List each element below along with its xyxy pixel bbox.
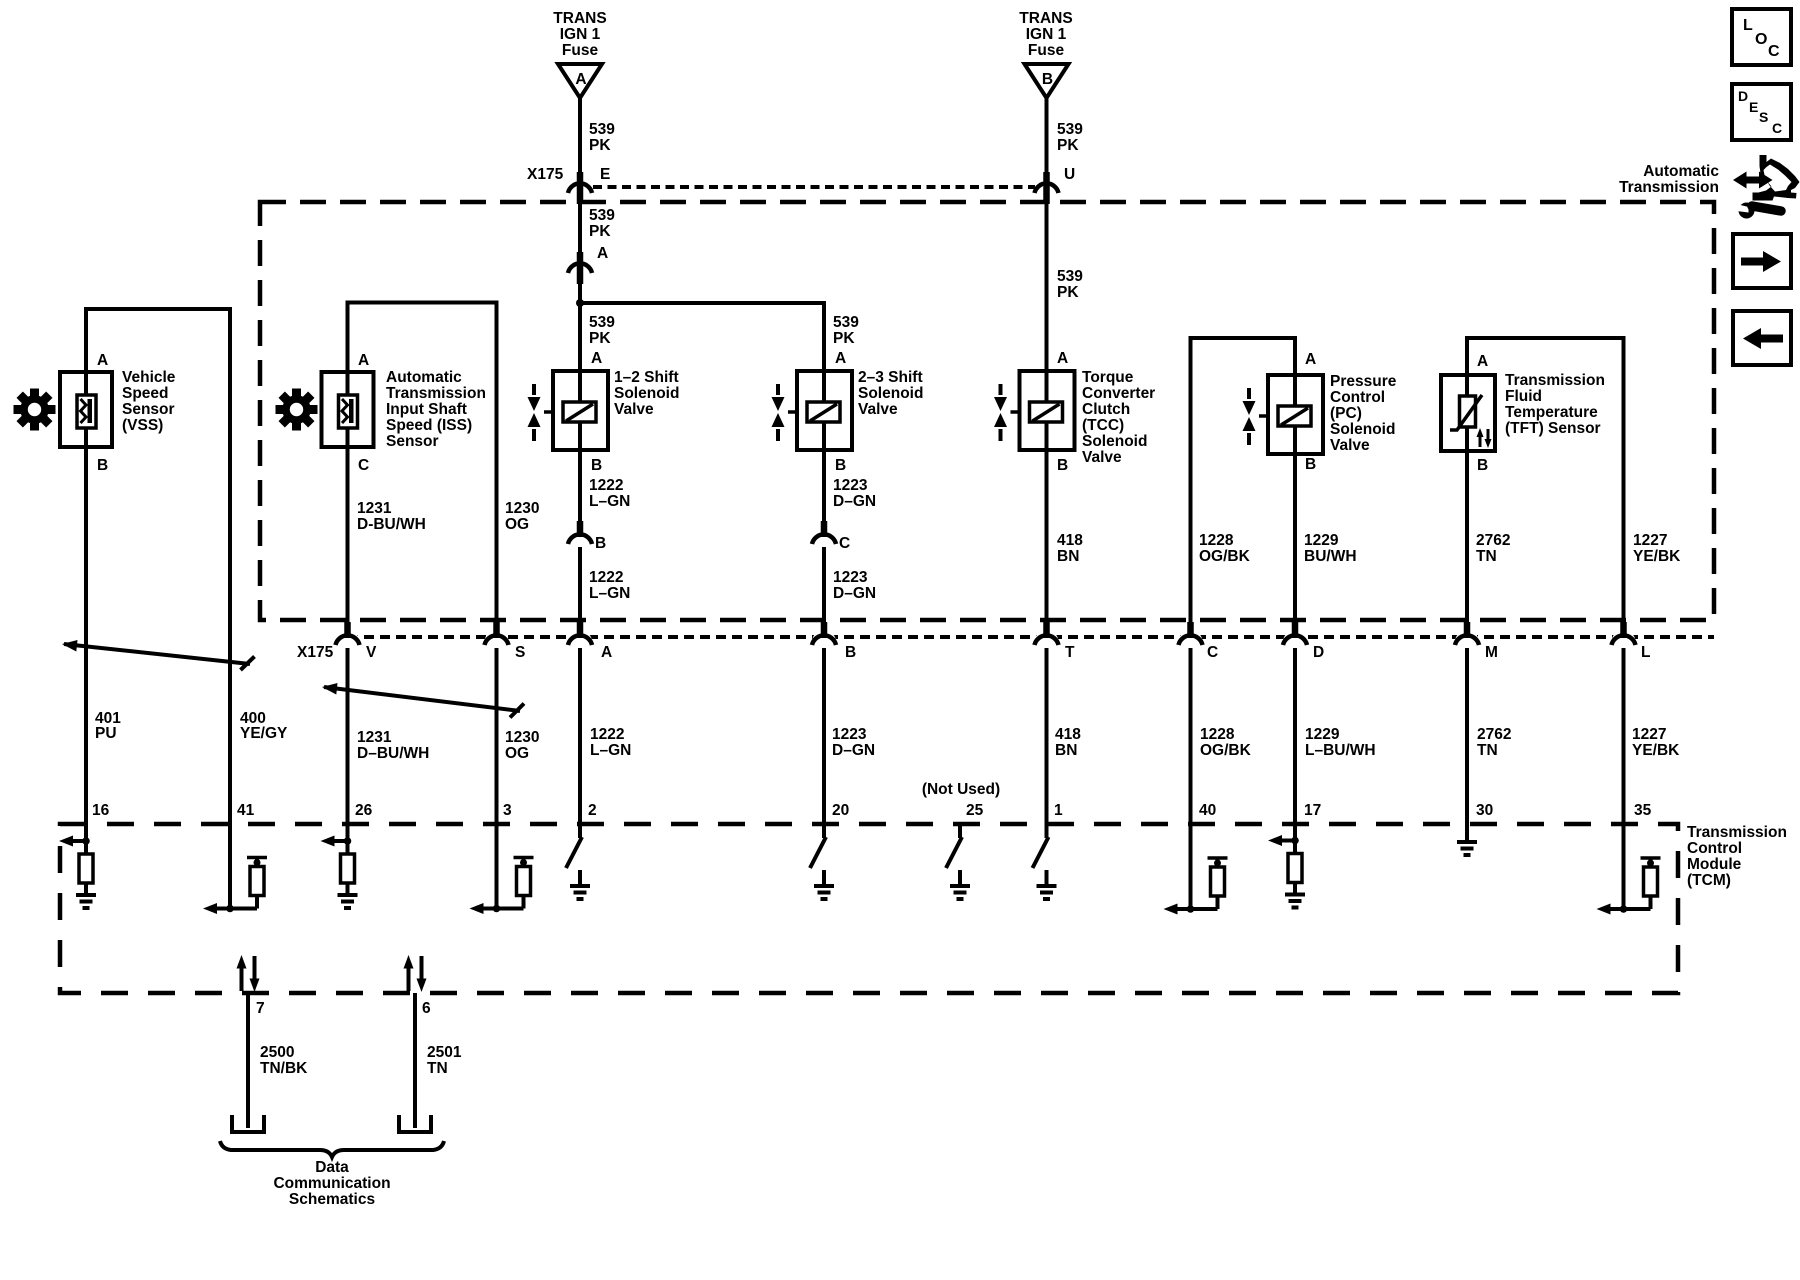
svg-text:2–3 Shift: 2–3 Shift [858,369,923,386]
svg-text:X175: X175 [527,166,564,183]
svg-text:D–BU/WH: D–BU/WH [357,745,429,762]
svg-text:Schematics: Schematics [289,1191,375,1208]
connector A (row) [568,622,612,661]
svg-text:Solenoid: Solenoid [614,385,679,402]
svg-text:IGN 1: IGN 1 [1026,26,1067,43]
svg-text:C: C [1768,43,1780,60]
svg-text:A: A [575,71,586,88]
TCM pin 1 internal: driver switch to ground [1033,824,1057,899]
svg-text:Control: Control [1330,389,1385,406]
svg-text:Valve: Valve [858,401,898,418]
transmission control module TCM dashed box [60,824,1678,993]
svg-text:B: B [595,535,606,552]
svg-text:17: 17 [1304,802,1321,819]
svg-text:1230: 1230 [505,500,539,517]
wire: TCM pin 6 to data link, circuit 2501 TN [415,993,462,1128]
svg-text:Vehicle: Vehicle [122,369,176,386]
svg-text:TRANS: TRANS [553,10,606,27]
svg-text:A: A [597,245,608,262]
svg-text:Input Shaft: Input Shaft [386,401,467,418]
svg-text:B: B [1042,71,1053,88]
svg-text:1223: 1223 [832,726,867,743]
svg-text:B: B [1057,457,1068,474]
svg-text:Speed: Speed [122,385,169,402]
connector socket on 2501 TN [399,1115,431,1132]
svg-text:A: A [591,350,602,367]
torque converter clutch TCC solenoid valve [994,350,1155,474]
svg-text:539: 539 [1057,268,1083,285]
svg-text:539: 539 [833,314,859,331]
svg-text:L–BU/WH: L–BU/WH [1305,742,1376,759]
svg-text:Speed (ISS): Speed (ISS) [386,417,472,434]
svg-text:PK: PK [589,137,611,154]
svg-text:(TFT) Sensor: (TFT) Sensor [1505,420,1601,437]
wire: PC solenoid loop top [1191,338,1296,637]
svg-text:A: A [97,352,108,369]
svg-text:B: B [1305,456,1316,473]
wire: connector C to X175 connector B, circuit 1223 D-GN [824,547,876,637]
svg-text:1222: 1222 [590,726,624,743]
icon: automatic transmission symbol with double arrow and wrench [1733,155,1800,219]
svg-text:Temperature: Temperature [1505,404,1598,421]
svg-text:Solenoid: Solenoid [858,385,923,402]
svg-text:Fuse: Fuse [562,42,599,59]
svg-text:35: 35 [1634,802,1652,819]
svg-text:539: 539 [589,207,615,224]
automatic transmission input shaft speed ISS sensor [322,352,486,474]
label: circuit 1230 OG [505,500,539,533]
wire: ISS pin C to connector V, circuit 1231 D-BU/WH [348,447,426,637]
svg-text:C: C [839,535,850,552]
TCM pin 26 internal: arrow, resistor, ground [321,836,358,909]
svg-text:L–GN: L–GN [590,742,631,759]
TCM pin 41 internal: arrow and pull-up resistor [203,858,267,915]
wire: connector C to TCM pin 40, circuit 1228 OG/BK [1191,648,1252,909]
svg-text:Data: Data [315,1159,349,1176]
svg-text:Fuse: Fuse [1028,42,1065,59]
TCM pin 16 internal: arrow, resistor, ground [59,836,96,909]
svg-text:26: 26 [355,802,373,819]
svg-text:BU/WH: BU/WH [1304,548,1357,565]
wire: TCC solenoid pin B to connector T, circuit 418 BN [1047,450,1084,637]
svg-text:1231: 1231 [357,729,392,746]
svg-text:TN: TN [1476,548,1497,565]
TCM pin 2 internal: driver switch to ground [566,824,590,899]
svg-text:(TCC): (TCC) [1082,417,1124,434]
svg-text:Automatic: Automatic [1643,163,1719,180]
svg-text:TRANS: TRANS [1019,10,1072,27]
svg-text:U: U [1064,166,1075,183]
svg-text:1223: 1223 [833,569,868,586]
svg-text:30: 30 [1476,802,1493,819]
svg-text:Communication: Communication [273,1175,390,1192]
svg-text:2762: 2762 [1476,532,1510,549]
svg-text:PU: PU [95,725,117,742]
wire: 1-2 solenoid pin B to connector B, circuit 1222 L-GN [580,450,630,536]
TCM pin 20 internal: driver switch to ground [810,824,834,899]
TCM pin 40 internal: arrow and pull-up resistor [1164,858,1228,915]
svg-text:1223: 1223 [833,477,868,494]
connector V [336,622,378,661]
svg-text:L–GN: L–GN [589,493,630,510]
svg-text:OG: OG [505,516,529,533]
svg-text:1227: 1227 [1633,532,1667,549]
connector socket on 2500 TN/BK [232,1115,264,1132]
wire: connector L to TCM pin 35, circuit 1227 YE/BK [1624,648,1681,909]
TCM pin 30 internal: ground [1457,824,1477,855]
label: circuit 1228 OG/BK [1199,532,1251,565]
connector C on 1223 D-GN [812,521,850,553]
wire: connector B to TCM pin 20, circuit 1223 D-GN [824,648,875,824]
svg-text:Valve: Valve [614,401,654,418]
wire: TFT pin B to connector M, circuit 2762 TN [1467,451,1510,637]
svg-text:1–2 Shift: 1–2 Shift [614,369,679,386]
svg-text:1229: 1229 [1304,532,1339,549]
wire: branch to 2-3 shift solenoid, circuit 539 PK [580,303,859,371]
svg-text:(Not Used): (Not Used) [922,781,1000,798]
svg-text:Transmission: Transmission [386,385,486,402]
wire: dotted X175 inline connector row [348,635,1714,639]
svg-text:C: C [358,457,369,474]
svg-text:Fluid: Fluid [1505,388,1542,405]
svg-text:1231: 1231 [357,500,392,517]
1-2 shift solenoid valve [528,350,680,474]
wire: connector S to TCM pin 3, circuit 1230 OG [497,648,540,909]
connector B (row) [812,622,856,661]
vehicle speed sensor VSS [60,352,176,474]
svg-text:OG: OG [505,745,529,762]
svg-text:20: 20 [832,802,849,819]
twisted pair arrow across VSS wires [62,640,255,670]
gear icon for VSS [14,389,56,431]
svg-text:539: 539 [589,314,615,331]
wire: connector A to TCM pin 2, circuit 1222 L-GN [580,648,631,824]
svg-text:1222: 1222 [589,569,623,586]
svg-text:B: B [845,644,856,661]
svg-text:Torque: Torque [1082,369,1134,386]
wire: dotted connector line E to U [593,185,1035,189]
TCM pin 3 internal: arrow and pull-up resistor [470,858,534,915]
svg-text:7: 7 [256,1000,265,1017]
bidirectional data arrows above TCM pin 6 [404,955,427,992]
svg-text:M: M [1485,644,1498,661]
wire: connector B to X175 connector A, circuit 1222 L-GN [580,547,630,637]
svg-text:PK: PK [589,223,611,240]
svg-text:T: T [1065,644,1075,661]
svg-text:YE/BK: YE/BK [1632,742,1680,759]
svg-text:Control: Control [1687,840,1742,857]
svg-text:E: E [600,166,610,183]
TCM pin 35 internal: arrow and pull-up resistor [1597,858,1661,915]
svg-text:2501: 2501 [427,1044,462,1061]
icon: left arrow box [1733,311,1791,365]
svg-text:D–GN: D–GN [833,585,876,602]
svg-text:B: B [835,457,846,474]
svg-text:L–GN: L–GN [589,585,630,602]
svg-text:A: A [835,350,846,367]
svg-text:S: S [1759,109,1768,125]
svg-text:OG/BK: OG/BK [1200,742,1252,759]
connector X175 pin U [1035,166,1076,204]
svg-text:A: A [1057,350,1068,367]
svg-text:25: 25 [966,802,984,819]
svg-text:L: L [1743,17,1753,34]
node: 539 PK branch junction [576,299,584,307]
bidirectional data arrows above TCM pin 7 [237,955,260,992]
wire: connector A to branch node, then to 1-2 solenoid, circuit 539 PK [580,276,615,371]
connector L [1612,622,1651,661]
svg-text:Transmission: Transmission [1619,179,1719,196]
svg-text:(TCM): (TCM) [1687,872,1731,889]
label: Automatic Transmission [1619,163,1719,196]
svg-text:Module: Module [1687,856,1742,873]
svg-text:1228: 1228 [1200,726,1235,743]
connector D (row) [1283,622,1324,661]
svg-text:6: 6 [422,1000,431,1017]
2-3 shift solenoid valve [772,350,924,474]
TCM pin 25 internal: driver switch to ground [946,824,970,899]
svg-text:(VSS): (VSS) [122,417,163,434]
svg-text:Converter: Converter [1082,385,1155,402]
svg-text:418: 418 [1057,532,1083,549]
svg-text:418: 418 [1055,726,1081,743]
svg-text:D–GN: D–GN [833,493,876,510]
svg-text:539: 539 [1057,121,1083,138]
svg-text:3: 3 [503,802,512,819]
svg-text:PK: PK [833,330,855,347]
svg-text:YE/BK: YE/BK [1633,548,1681,565]
svg-text:Clutch: Clutch [1082,401,1130,418]
svg-text:1: 1 [1054,802,1063,819]
connector S [485,622,526,661]
connector X175 pin E [527,166,610,204]
svg-text:2762: 2762 [1477,726,1511,743]
svg-text:40: 40 [1199,802,1216,819]
svg-text:539: 539 [589,121,615,138]
label: Transmission Control Module (TCM) [1687,824,1787,889]
svg-text:TN: TN [1477,742,1498,759]
svg-text:PK: PK [1057,284,1079,301]
svg-text:BN: BN [1055,742,1077,759]
svg-text:D–GN: D–GN [832,742,875,759]
svg-text:41: 41 [237,802,255,819]
svg-text:Transmission: Transmission [1505,372,1605,389]
svg-text:1222: 1222 [589,477,623,494]
connector M [1455,622,1498,661]
svg-text:16: 16 [92,802,110,819]
svg-text:A: A [1305,351,1316,368]
TCM pin 17 internal: arrow, resistor, ground [1268,835,1305,908]
svg-text:PK: PK [589,330,611,347]
svg-text:V: V [366,644,377,661]
icon: right arrow box [1733,234,1791,288]
svg-text:BN: BN [1057,548,1079,565]
gear icon for ISS [276,389,318,431]
twisted pair arrow across ISS wires [322,683,524,718]
wire: connector M to TCM pin 30, circuit 2762 TN [1467,648,1511,824]
wire: fuse B to connector U, circuit 539 PK [1047,98,1084,188]
svg-text:S: S [515,644,525,661]
svg-text:1230: 1230 [505,729,539,746]
svg-text:1227: 1227 [1632,726,1666,743]
svg-text:TN/BK: TN/BK [260,1060,308,1077]
svg-text:Valve: Valve [1330,437,1370,454]
svg-text:PK: PK [1057,137,1079,154]
wire: connector V to TCM pin 26, circuit 1231 D-BU/WH [348,648,430,841]
svg-text:A: A [601,644,612,661]
icon: DESC box [1732,84,1791,140]
svg-text:Transmission: Transmission [1687,824,1787,841]
svg-text:X175: X175 [297,644,334,661]
connector T [1035,622,1076,661]
svg-text:Solenoid: Solenoid [1330,421,1395,438]
wire: PC solenoid pin B to connector D, circuit 1229 BU/WH [1295,454,1357,637]
wire: VSS loop top [86,309,230,909]
connector C (row) [1179,622,1219,661]
svg-text:Sensor: Sensor [122,401,175,418]
wire: ISS loop top [348,303,497,638]
svg-text:B: B [1477,457,1488,474]
pin 25 label (Not Used) [922,781,1000,819]
wire: fuse A to connector E, circuit 539 PK [580,98,615,188]
connector A on 539 PK feed [568,245,608,284]
svg-text:D: D [1313,644,1324,661]
svg-text:2: 2 [588,802,597,819]
connector B on 1222 L-GN [568,521,606,553]
brace for data communication schematics [220,1141,444,1157]
label: circuit 1227 YE/BK [1633,532,1681,565]
wire: TFT sensor loop top [1467,338,1624,637]
svg-text:YE/GY: YE/GY [240,725,288,742]
svg-text:OG/BK: OG/BK [1199,548,1251,565]
icon: LOC box [1732,9,1791,65]
wire: connector T to TCM pin 1, circuit 418 BN [1047,648,1082,824]
svg-text:A: A [358,352,369,369]
label: Data Communication Schematics [273,1159,390,1208]
svg-text:Solenoid: Solenoid [1082,433,1147,450]
svg-text:TN: TN [427,1060,448,1077]
svg-text:E: E [1749,99,1758,115]
svg-text:IGN 1: IGN 1 [560,26,601,43]
svg-text:L: L [1641,644,1650,661]
wire: connector D to TCM pin 17, circuit 1229 L-BU/WH [1295,648,1376,841]
automatic transmission dashed boundary box [260,202,1714,620]
svg-text:B: B [591,457,602,474]
svg-text:D: D [1738,88,1748,104]
fuse A: TRANS IGN 1 Fuse [553,10,606,98]
svg-text:O: O [1755,31,1767,48]
svg-text:Sensor: Sensor [386,433,439,450]
wire: TCM pin 7 to data link, circuit 2500 TN/BK [248,993,308,1128]
svg-text:Automatic: Automatic [386,369,462,386]
svg-text:Valve: Valve [1082,449,1122,466]
transmission fluid temperature TFT sensor [1441,353,1605,474]
svg-text:1228: 1228 [1199,532,1234,549]
svg-text:C: C [1207,644,1218,661]
svg-text:D-BU/WH: D-BU/WH [357,516,426,533]
svg-text:Pressure: Pressure [1330,373,1397,390]
svg-text:(PC): (PC) [1330,405,1362,422]
svg-text:A: A [1477,353,1488,370]
svg-text:B: B [97,457,108,474]
svg-text:C: C [1772,120,1782,136]
wire: 2-3 solenoid pin B to connector C, circuit 1223 D-GN [824,450,876,536]
wire: connector U down to TCC solenoid, circuit 539 PK [1047,194,1084,371]
pressure control PC solenoid valve [1243,351,1397,473]
wire: VSS pin B to TCM pin 16, circuit 401 PU [86,447,121,841]
wire: connector E down to connector A, circuit 539 PK [580,194,615,258]
svg-text:1229: 1229 [1305,726,1340,743]
label: circuit 400 YE/GY [240,710,288,742]
fuse B: TRANS IGN 1 Fuse [1019,10,1072,98]
svg-text:2500: 2500 [260,1044,294,1061]
